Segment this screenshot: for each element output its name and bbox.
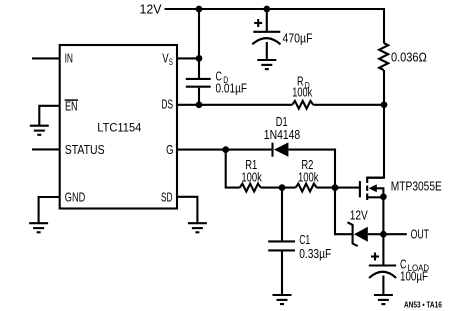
wire: VS pin stub	[177, 57, 199, 59]
node: top rail / 470uF branch junction	[263, 6, 270, 13]
node: G row / R1 branch junction	[222, 146, 229, 153]
svg-text:1N4148: 1N4148	[264, 128, 300, 142]
svg-text:100k: 100k	[298, 171, 319, 185]
svg-text:D1: D1	[276, 115, 288, 129]
pin EN label (active low, overline)	[65, 99, 78, 114]
wire: CLOAD top lead	[382, 234, 384, 264]
label RD 100k	[292, 75, 313, 100]
svg-text:C1: C1	[299, 233, 310, 247]
svg-text:12V: 12V	[350, 209, 369, 223]
wire: 12V top rail	[165, 8, 385, 10]
svg-text:S: S	[169, 57, 173, 68]
ground: below CLOAD	[374, 295, 393, 304]
wire: CD bottom plate to DS row	[198, 88, 200, 105]
svg-text:LTC1154: LTC1154	[97, 121, 141, 135]
ground: GND pin	[29, 223, 48, 232]
label R2 100k	[298, 158, 319, 185]
capacitor CLOAD 100uF (polarized)	[369, 266, 396, 279]
ground: below C1	[273, 295, 292, 304]
resistor RD 100k	[292, 101, 313, 109]
wire: R1 to R2	[261, 187, 296, 189]
transistor Q1 MTP3055E (N-MOSFET)	[360, 177, 384, 201]
svg-text:0.036Ω: 0.036Ω	[391, 51, 427, 65]
svg-text:AN53 • TA16: AN53 • TA16	[404, 300, 442, 309]
svg-text:OUT: OUT	[411, 227, 430, 241]
svg-text:MTP3055E: MTP3055E	[391, 180, 442, 194]
label R1 100k	[241, 158, 262, 185]
svg-text:SD: SD	[161, 190, 173, 205]
svg-text:100k: 100k	[292, 86, 313, 100]
IC U1 LTC1154 body	[60, 45, 177, 209]
svg-text:12V: 12V	[140, 3, 163, 17]
resistor 0.036 ohm sense	[379, 43, 388, 70]
resistor R2 100k	[296, 184, 317, 192]
wire: 470uF bottom lead	[266, 42, 268, 60]
node: VS pin junction	[196, 55, 203, 62]
wire: GND pin stub to ground	[39, 197, 60, 223]
svg-text:STATUS: STATUS	[65, 142, 105, 157]
wire: STATUS pin stub	[32, 148, 60, 150]
wire: G row branch down to R1 row	[226, 150, 240, 188]
svg-text:0.33µF: 0.33µF	[299, 247, 331, 261]
wire: DS junction down to MOSFET drain	[367, 105, 384, 178]
wire: C1 top lead	[281, 188, 283, 241]
svg-text:GND: GND	[65, 190, 85, 205]
diode D1 1N4148	[273, 142, 289, 156]
capacitor C1	[268, 241, 295, 250]
wire: SD pin stub to ground	[177, 197, 197, 223]
label C1 0.33uF	[299, 233, 331, 261]
wire: right rail top (rail corner down to sense resistor)	[383, 8, 385, 43]
wire: EN pin stub to ground	[39, 106, 59, 125]
zener diode 12V clamp	[348, 222, 368, 246]
polarity + for CLOAD	[371, 253, 379, 261]
svg-text:470µF: 470µF	[283, 32, 313, 46]
svg-text:100k: 100k	[241, 171, 262, 185]
wire: sense resistor to DS junction	[383, 70, 385, 105]
node: gate / zener junction	[332, 184, 339, 191]
polarity + for 470uF	[254, 19, 262, 27]
label CD 0.01uF	[216, 69, 248, 95]
wire: VS branch vertical (rail to CD top plate)	[198, 9, 200, 78]
wire: R2 to MOSFET gate	[317, 187, 360, 189]
wire: OUT stub	[383, 233, 406, 235]
wire: IN pin stub	[32, 57, 60, 59]
wire: C1 bottom lead	[281, 250, 283, 294]
label CLOAD 100uF	[400, 257, 429, 283]
ground: below 470uF	[257, 60, 276, 69]
capacitor 470uF (polarized)	[252, 32, 280, 45]
wire: MOSFET source down to OUT node	[382, 197, 384, 234]
node: OUT junction	[380, 231, 387, 238]
wire: zener anode to OUT node	[368, 233, 384, 235]
wire: DS row right segment	[313, 104, 384, 106]
ground: EN pin	[30, 126, 49, 135]
wire: D1 anode to gate-node corner	[288, 150, 335, 188]
resistor R1 100k	[240, 184, 261, 192]
svg-text:DS: DS	[162, 97, 174, 112]
wire: 470uF top lead	[266, 9, 268, 31]
ground: SD pin	[188, 223, 207, 232]
wire: CLOAD bottom lead	[382, 276, 384, 295]
node: DS row / sense resistor junction	[381, 101, 388, 108]
node: DS row / CD junction	[196, 101, 203, 108]
capacitor CD	[186, 79, 211, 87]
svg-text:G: G	[166, 142, 173, 157]
svg-text:IN: IN	[65, 51, 73, 66]
svg-text:100µF: 100µF	[400, 270, 428, 284]
node: MOSFET body-source tie	[380, 193, 387, 200]
wire: G pin row to diode D1	[177, 149, 272, 151]
node: top rail / VS branch junction	[196, 6, 203, 13]
wire: DS row left segment	[177, 104, 292, 106]
svg-text:0.01µF: 0.01µF	[216, 82, 248, 96]
pin VS label	[162, 51, 173, 69]
wire: zener branch vertical and lead	[335, 188, 352, 235]
node: R1/R2/C1 junction	[279, 184, 286, 191]
label D1 1N4148	[264, 115, 300, 142]
